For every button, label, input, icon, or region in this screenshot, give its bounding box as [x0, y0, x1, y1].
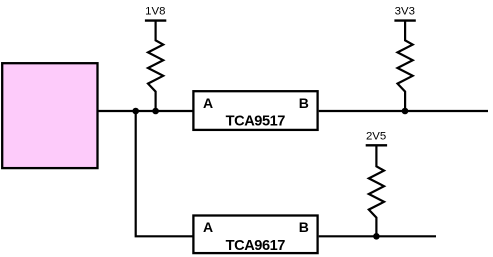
power rail 1V8 (bar) [145, 19, 166, 21]
power rail 3V3 (bar) [394, 19, 415, 21]
node: junction dot at 1V8 pull-up [152, 108, 159, 115]
svg-text:TCA9517: TCA9517 [226, 114, 286, 130]
svg-text:B: B [299, 95, 309, 111]
svg-text:A: A [203, 219, 213, 235]
svg-text:1V8: 1V8 [145, 5, 165, 17]
node: junction dot at branch split [132, 108, 139, 115]
wire: controller output to TCA9517 pin A [97, 110, 193, 112]
svg-text:3V3: 3V3 [395, 5, 415, 17]
node: junction dot at 2V5 pull-up [373, 233, 380, 240]
wire: TCA9517 pin B to right [319, 110, 488, 112]
wire: TCA9617 pin B to right [319, 235, 436, 237]
svg-text:A: A [203, 95, 213, 111]
resistor: 2V5 pull-up on B side [369, 145, 384, 236]
op-amp U1 TCA9517 body [193, 91, 317, 130]
power rail 2V5 (bar) [366, 144, 387, 146]
svg-text:2V5: 2V5 [366, 131, 386, 143]
resistor: 3V3 pull-up on B side [398, 21, 413, 111]
op-amp U2 TCA9617 body [193, 216, 317, 254]
controller block (pink box) [2, 63, 97, 168]
wire: branch down to TCA9617 pin A [136, 111, 193, 236]
resistor: 1V8 pull-up on A side [148, 21, 163, 111]
svg-text:TCA9617: TCA9617 [226, 238, 286, 254]
svg-text:B: B [299, 219, 309, 235]
node: junction dot at 3V3 pull-up [402, 108, 409, 115]
